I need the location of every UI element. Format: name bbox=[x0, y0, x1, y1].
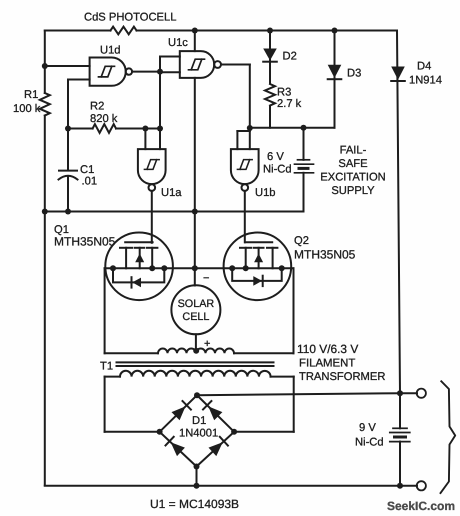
solar cell bbox=[171, 285, 220, 334]
label 110V/6.3V bbox=[297, 342, 358, 356]
svg-text:SUPPLY: SUPPLY bbox=[331, 185, 375, 197]
wire U1b input left bbox=[237, 131, 249, 149]
transistor Q2 circle bbox=[224, 232, 292, 300]
label 100 k bbox=[13, 103, 41, 115]
svg-text:1N4001: 1N4001 bbox=[179, 428, 218, 440]
node bridge bottom bbox=[194, 464, 200, 470]
label 6 V bbox=[267, 151, 284, 163]
node E bbox=[142, 126, 148, 132]
svg-text:SeekIC.com: SeekIC.com bbox=[387, 499, 455, 513]
wire plus terminal lead bbox=[400, 392, 417, 394]
node A bbox=[42, 63, 48, 69]
svg-text:Q2: Q2 bbox=[294, 235, 309, 247]
wire 9V battery top bbox=[399, 393, 401, 428]
svg-text:U1 = MC14093B: U1 = MC14093B bbox=[150, 497, 239, 511]
node N bbox=[192, 265, 198, 271]
op-amp U1a gate bbox=[138, 149, 166, 191]
watermark SeekIC.com bbox=[387, 499, 455, 513]
label Q1 MTH35N05 bbox=[54, 235, 116, 249]
label U1c bbox=[168, 37, 188, 49]
label U1d bbox=[100, 45, 121, 57]
wire Q2 drop bbox=[293, 268, 295, 353]
wire bridge left bbox=[105, 431, 160, 433]
svg-text:SAFE: SAFE bbox=[338, 158, 367, 170]
label Q1 bbox=[54, 224, 69, 236]
svg-text:MTH35N05: MTH35N05 bbox=[54, 235, 116, 249]
wire U1d input top bbox=[45, 65, 90, 67]
label C1 bbox=[80, 164, 94, 176]
node K bbox=[42, 209, 48, 215]
battery 6V Ni-Cd bbox=[295, 160, 314, 173]
svg-text:TRANSFORMER: TRANSFORMER bbox=[299, 371, 385, 383]
wire top rail bbox=[45, 30, 397, 32]
inductor T1 primary bbox=[158, 349, 234, 354]
resistor R3 bbox=[263, 84, 277, 106]
label .01 bbox=[82, 176, 98, 188]
terminal plus bbox=[417, 389, 426, 398]
resistor R1 bbox=[40, 93, 50, 116]
diode D1b bbox=[203, 401, 222, 420]
svg-text:CELL: CELL bbox=[182, 311, 209, 323]
op-amp U1c gate bbox=[180, 51, 221, 78]
svg-text:U1d: U1d bbox=[100, 45, 121, 57]
svg-text:CdS PHOTOCELL: CdS PHOTOCELL bbox=[84, 12, 176, 24]
wire drain rail bbox=[105, 267, 294, 269]
op-amp U1b gate bbox=[231, 149, 259, 191]
svg-text:100 k: 100 k bbox=[13, 103, 41, 115]
label Ni-Cd 6V bbox=[263, 164, 292, 176]
wire primary right bbox=[234, 352, 294, 354]
svg-text:EXCITATION: EXCITATION bbox=[320, 172, 385, 184]
wire primary left bbox=[105, 352, 158, 354]
wire bottom rail bbox=[45, 485, 417, 487]
capacitor C1 bbox=[59, 171, 78, 212]
wire U1c bottom line bbox=[194, 78, 196, 286]
wire D4 branch bbox=[397, 31, 400, 394]
core T1 bbox=[117, 362, 274, 366]
svg-text:1N914: 1N914 bbox=[409, 75, 442, 87]
svg-text:820 k: 820 k bbox=[90, 113, 118, 125]
diode D1a bbox=[172, 401, 191, 420]
svg-text:FILAMENT: FILAMENT bbox=[299, 358, 355, 370]
label U1a bbox=[161, 187, 182, 199]
wire U1a output bbox=[151, 191, 153, 242]
diode Q2 body bbox=[232, 268, 282, 286]
wire U1a input left bbox=[144, 129, 146, 150]
diode D3 bbox=[328, 65, 342, 79]
svg-text:2.7 k: 2.7 k bbox=[277, 98, 302, 110]
node F bbox=[157, 126, 163, 132]
label Q2 bbox=[294, 235, 309, 247]
svg-text:Ni-Cd: Ni-Cd bbox=[263, 164, 292, 176]
label CdS PHOTOCELL bbox=[84, 12, 176, 24]
svg-text:R1: R1 bbox=[24, 89, 38, 101]
wire C1 top bbox=[67, 129, 69, 170]
label minus bbox=[203, 273, 209, 285]
label R1 bbox=[24, 89, 38, 101]
node bridge top bbox=[194, 392, 200, 398]
wire U1c output bbox=[221, 65, 250, 129]
wire plus rail bbox=[197, 393, 400, 395]
svg-text:D4: D4 bbox=[417, 61, 431, 73]
label D3 bbox=[347, 68, 361, 80]
wire U1c input upper bbox=[160, 57, 180, 72]
inductor T1 secondary bbox=[120, 371, 271, 377]
label D4 bbox=[417, 61, 431, 73]
terminal minus bbox=[417, 481, 426, 490]
svg-text:110 V/6.3 V: 110 V/6.3 V bbox=[297, 342, 358, 356]
svg-text:D3: D3 bbox=[347, 68, 361, 80]
wire U1c input lower bbox=[160, 71, 180, 73]
node B bbox=[157, 69, 163, 75]
label R3 bbox=[277, 87, 291, 99]
svg-text:Ni-Cd: Ni-Cd bbox=[355, 437, 384, 449]
node R bbox=[194, 483, 200, 489]
wire U1b input right bbox=[249, 128, 251, 149]
photocell CdS bbox=[111, 27, 137, 35]
label plus bbox=[204, 338, 210, 350]
node bridge right bbox=[231, 429, 237, 435]
label 820 k bbox=[90, 113, 118, 125]
node L bbox=[65, 209, 71, 215]
label D1 bbox=[192, 415, 206, 427]
node D bbox=[65, 126, 71, 132]
label U1 = MC14093B bbox=[150, 497, 239, 511]
svg-text:D1: D1 bbox=[192, 415, 206, 427]
node Q1 gate leg bbox=[149, 265, 155, 271]
label R2 bbox=[90, 101, 104, 113]
label U1b bbox=[255, 187, 276, 199]
wire U1d input bottom bbox=[68, 80, 90, 129]
node G bbox=[247, 125, 253, 131]
label Ni-Cd 9V bbox=[355, 437, 384, 449]
svg-text:R3: R3 bbox=[277, 87, 291, 99]
wire R2 rail bbox=[68, 128, 160, 130]
svg-text:U1a: U1a bbox=[161, 187, 182, 199]
node I bbox=[301, 125, 307, 131]
wire node B to R2 rail bbox=[159, 72, 161, 150]
wire U1b output bbox=[244, 191, 246, 242]
wire Q1 gate lead bbox=[151, 241, 153, 244]
node Q bbox=[397, 483, 403, 489]
diode D1d bbox=[209, 437, 228, 456]
wire U1c top stub bbox=[194, 31, 196, 52]
node Q2 gate leg bbox=[243, 265, 249, 271]
resistor R2 bbox=[93, 124, 116, 133]
node Q1 drain bbox=[161, 265, 167, 271]
diode Q1 body bbox=[113, 268, 164, 287]
node O bbox=[193, 348, 199, 354]
node P bbox=[397, 390, 403, 396]
label D2 bbox=[283, 51, 297, 63]
wire Q1 source drop bbox=[104, 268, 106, 353]
diode D2 bbox=[263, 49, 277, 62]
wire 9V battery bottom bbox=[399, 442, 401, 486]
svg-text:SOLAR: SOLAR bbox=[178, 298, 215, 310]
node J bbox=[332, 28, 338, 34]
op-amp U1d gate bbox=[90, 58, 132, 86]
svg-text:R2: R2 bbox=[90, 101, 104, 113]
wire left rail bbox=[44, 31, 46, 486]
label T1 bbox=[100, 361, 113, 373]
node Q2 source bbox=[229, 265, 235, 271]
label TRANSFORMER bbox=[299, 371, 385, 383]
wire U1d output bbox=[132, 71, 160, 73]
diode bridge frame bbox=[160, 395, 235, 466]
label Q2 MTH35N05 bbox=[294, 248, 356, 262]
wire secondary right bbox=[271, 377, 294, 432]
node bridge left bbox=[157, 429, 163, 435]
svg-text:−: − bbox=[203, 273, 209, 285]
wire 6V battery bottom bbox=[45, 173, 304, 212]
wire solar cell bottom bbox=[195, 334, 197, 352]
svg-text:FAIL-: FAIL- bbox=[340, 145, 367, 157]
wire 6V battery top bbox=[303, 128, 305, 160]
wire secondary left bbox=[105, 377, 120, 432]
label 2.7 k bbox=[277, 98, 302, 110]
wire mid rail bbox=[250, 31, 335, 128]
svg-text:D2: D2 bbox=[283, 51, 297, 63]
label FAIL-SAFE EXCITATION SUPPLY bbox=[320, 145, 385, 198]
transistor Q1 circle bbox=[105, 232, 173, 300]
svg-text:.01: .01 bbox=[82, 176, 98, 188]
diode D1c bbox=[166, 437, 185, 456]
battery 9V Ni-Cd bbox=[390, 428, 410, 441]
label 9 V bbox=[359, 422, 376, 434]
diode D4 bbox=[391, 67, 405, 82]
svg-text:MTH35N05: MTH35N05 bbox=[294, 248, 356, 262]
svg-text:U1c: U1c bbox=[168, 37, 188, 49]
transistor Q2 symbol bbox=[240, 242, 277, 268]
transistor Q1 symbol bbox=[120, 242, 157, 268]
brace output bbox=[441, 381, 456, 493]
wire bridge right bbox=[234, 431, 294, 433]
node Q2 drain bbox=[279, 265, 285, 271]
label 1N4001 bbox=[179, 428, 218, 440]
label 1N914 bbox=[409, 75, 442, 87]
svg-text:T1: T1 bbox=[100, 361, 113, 373]
svg-text:U1b: U1b bbox=[255, 187, 276, 199]
node M bbox=[192, 209, 198, 215]
wire D2 branch bbox=[269, 31, 271, 128]
svg-text:9 V: 9 V bbox=[359, 422, 376, 434]
label FILAMENT bbox=[299, 358, 355, 370]
svg-text:6 V: 6 V bbox=[267, 151, 284, 163]
node H bbox=[267, 28, 273, 34]
node Q1 source bbox=[110, 265, 116, 271]
wire bridge bottom lead bbox=[196, 467, 198, 486]
node C bbox=[192, 28, 198, 34]
svg-text:C1: C1 bbox=[80, 164, 94, 176]
